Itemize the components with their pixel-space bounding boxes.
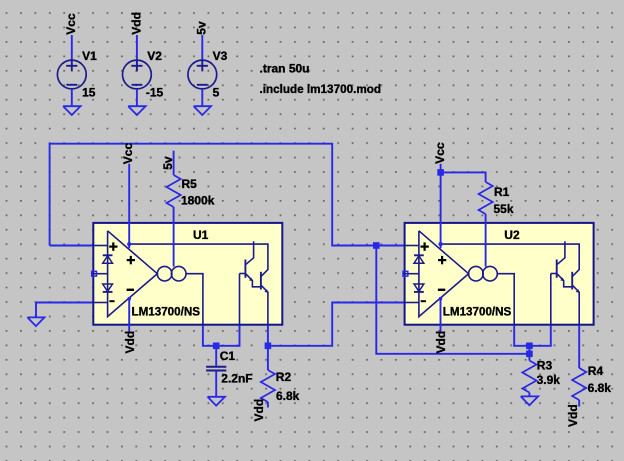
svg-text:LM13700/NS: LM13700/NS: [443, 304, 512, 318]
op-amp U2 (LM13700/NS): [405, 223, 594, 325]
wire: U1 buffer output down: [267, 325, 269, 345]
ground (V3): [194, 106, 211, 115]
capacitor C1 2.2nF: [206, 346, 253, 397]
resistor R1 55k: [441, 172, 514, 216]
svg-text:V2: V2: [147, 49, 162, 63]
svg-text:1800k: 1800k: [181, 194, 215, 208]
svg-text:Vdd: Vdd: [566, 404, 580, 427]
svg-text:U2: U2: [504, 228, 520, 242]
svg-text:R4: R4: [588, 364, 604, 378]
svg-text:U1: U1: [193, 228, 209, 242]
svg-text:55k: 55k: [494, 202, 514, 216]
svg-text:Vdd: Vdd: [252, 399, 266, 422]
svg-text:5v: 5v: [195, 21, 209, 35]
svg-text:Vcc: Vcc: [433, 142, 447, 164]
svg-text:6.8k: 6.8k: [588, 381, 612, 395]
wire: U2 buffer output down to R4: [578, 325, 580, 368]
wire: U2 output and buffer-in stubs: [514, 325, 551, 345]
wire: Vcc into U2: [440, 164, 442, 249]
svg-text:R2: R2: [276, 370, 292, 384]
voltage source V3: [188, 35, 228, 106]
junction: U2 internal rail: [438, 242, 442, 246]
junction: U1 internal bottom: [127, 297, 131, 301]
junction: U1 internal rail: [127, 242, 131, 246]
op-amp U1 (LM13700/NS): [93, 223, 282, 325]
svg-text:2.2nF: 2.2nF: [221, 372, 252, 386]
svg-text:Vdd: Vdd: [123, 331, 137, 354]
svg-text:3.9k: 3.9k: [537, 373, 561, 387]
junction: U2 internal bottom: [439, 297, 443, 301]
svg-text:Vdd: Vdd: [129, 12, 143, 35]
junction: R3 lower node: [526, 351, 533, 358]
wire: U1 -input to ground: [36, 303, 93, 318]
wire: R3 node link: [528, 346, 530, 354]
svg-text:C1: C1: [220, 349, 236, 363]
wire: R1 into U2 bias input: [485, 214, 487, 267]
wire: Vdd out of U1 bottom: [128, 299, 130, 333]
svg-text:R1: R1: [494, 185, 510, 199]
junction: R2 node: [265, 343, 272, 350]
wire: Vdd out of U2 bottom: [440, 299, 442, 333]
junction: Vcc / R1 node: [437, 169, 444, 176]
svg-text:V3: V3: [213, 49, 228, 63]
resistor R5 1800k: [167, 151, 215, 208]
unconnected bias pin marker (U2): [403, 271, 408, 276]
svg-text:5: 5: [213, 86, 220, 100]
junction: R3 upper node: [526, 343, 533, 350]
junction: C1 node: [213, 343, 220, 350]
svg-text:Vcc: Vcc: [121, 143, 135, 165]
ground (C1): [208, 397, 225, 406]
wire: Vcc into U1: [128, 164, 130, 249]
svg-text:R3: R3: [537, 359, 553, 373]
svg-text:-15: -15: [146, 86, 164, 100]
svg-text:V1: V1: [82, 49, 97, 63]
svg-text:.tran 50u: .tran 50u: [260, 62, 310, 76]
wire: U1 buffer output to U2 -input: [268, 303, 405, 346]
resistor R4 6.8k: [572, 364, 611, 406]
wire: U1 output and buffer-in stubs: [203, 325, 240, 345]
junction: node at U2 +input branch: [373, 242, 380, 249]
unconnected bias pin marker (U1): [92, 271, 97, 276]
ground (V2): [128, 106, 145, 115]
wire: R5 into U1 bias input: [173, 207, 175, 267]
ground (U1 -input): [27, 317, 44, 326]
voltage source V2: [122, 35, 163, 106]
svg-text:5v: 5v: [161, 156, 175, 170]
svg-text:Vcc: Vcc: [64, 13, 78, 35]
voltage source V1: [57, 35, 97, 106]
svg-text:.include lm13700.mod: .include lm13700.mod: [260, 82, 382, 96]
ground (R3): [521, 396, 538, 405]
wire: feedback loop from U1 +input across top to U2 +input: [50, 144, 405, 246]
wire: from +input node down to R3: [376, 246, 529, 354]
svg-text:Vdd: Vdd: [434, 331, 448, 354]
resistor R2 6.8k: [261, 346, 300, 408]
svg-text:15: 15: [82, 86, 96, 100]
resistor R3 3.9k: [522, 354, 560, 397]
svg-text:R5: R5: [182, 177, 198, 191]
ground (V1): [63, 106, 80, 115]
svg-text:6.8k: 6.8k: [276, 389, 300, 403]
svg-text:LM13700/NS: LM13700/NS: [132, 304, 201, 318]
